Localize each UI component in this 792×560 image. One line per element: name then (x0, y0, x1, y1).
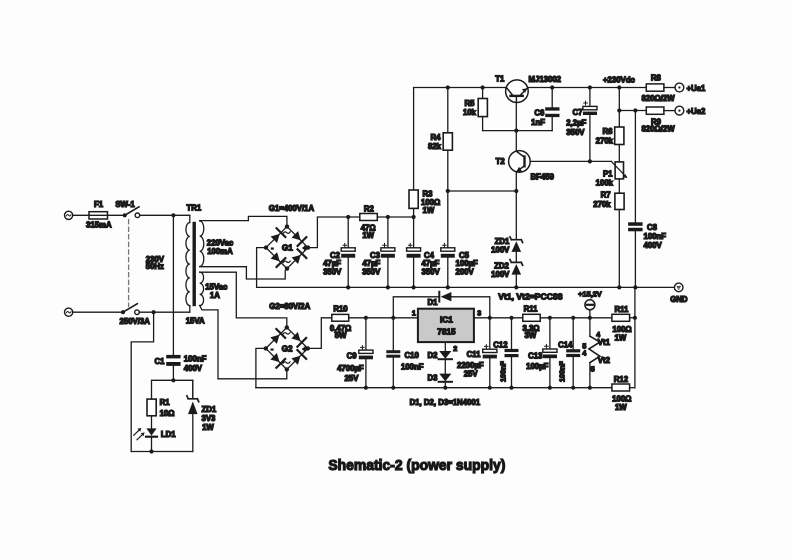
wire G1 minus to ground bus (257, 248, 266, 288)
wire G2 minus to lower ground bus (256, 348, 266, 387)
svg-text:4700µF: 4700µF (337, 364, 364, 373)
input terminal bottom (~) (65, 308, 73, 316)
switch SW-1 (top pole) (123, 207, 140, 218)
capacitor C2 (341, 217, 355, 287)
junction R5 top (481, 85, 485, 89)
capacitor C14 (566, 318, 580, 388)
svg-text:270k: 270k (596, 137, 614, 146)
svg-text:G1=400V/1A: G1=400V/1A (269, 204, 315, 213)
junction C8 top (633, 108, 637, 112)
svg-text:C11: C11 (467, 350, 482, 359)
svg-text:-: - (271, 246, 274, 253)
svg-text:100mA: 100mA (207, 247, 233, 256)
wire IC1 pin2 (444, 342, 446, 351)
svg-text:TR1: TR1 (187, 204, 202, 213)
svg-text:Shematic-2 (power supply): Shematic-2 (power supply) (328, 457, 505, 474)
svg-text:400V: 400V (644, 241, 663, 250)
svg-text:R10: R10 (333, 305, 348, 314)
wire SW bottom to primary bottom (139, 311, 190, 313)
svg-text:350V: 350V (566, 128, 585, 137)
output terminal +Ua1 (675, 83, 684, 92)
svg-text:350V: 350V (422, 267, 441, 276)
wire R9 to Ua2 (664, 110, 675, 112)
wire T1 base down to drive node (515, 102, 517, 130)
wire R12 right to ground drop (630, 387, 635, 389)
svg-text:C13: C13 (528, 351, 543, 360)
wire G2 plus up to R10 (308, 318, 332, 349)
svg-text:R11: R11 (524, 305, 539, 314)
svg-text:2,2µF: 2,2µF (566, 118, 586, 127)
wire SW-1 to node A (primary top) (140, 214, 190, 216)
svg-text:+Ua1: +Ua1 (687, 84, 707, 93)
output terminal +Ua2 (675, 106, 684, 115)
capacitor C12 (505, 318, 519, 388)
capacitor C4 (407, 217, 421, 287)
transistor T1 (506, 80, 529, 103)
resistor R8 (646, 84, 664, 91)
input terminal top (~) (65, 211, 73, 219)
dashed link between switch poles (128, 220, 130, 307)
svg-text:3W: 3W (525, 331, 537, 340)
wire R4 down to reference node (447, 150, 449, 191)
capacitor C11 (483, 318, 497, 388)
wire R1 to LD1 (151, 416, 153, 429)
svg-text:3V3: 3V3 (202, 414, 217, 423)
wire LD1 to bottom (151, 438, 153, 452)
zener ZD1 100V (510, 191, 523, 262)
junction node B (152, 310, 156, 314)
svg-text:C6: C6 (534, 109, 545, 118)
diode G2 bottom-right (291, 356, 300, 365)
svg-text:315mA: 315mA (86, 221, 112, 230)
svg-text:-: - (271, 346, 274, 353)
svg-text:1W: 1W (615, 334, 627, 343)
TR1 primary lead bottom (189, 306, 191, 313)
resistor R11 (3.3ohm) (523, 314, 540, 321)
svg-text:270k: 270k (593, 200, 611, 209)
svg-text:R11: R11 (614, 305, 629, 314)
svg-text:GND: GND (670, 295, 688, 304)
diode D1 (393, 292, 490, 318)
diode G1 top-left (271, 234, 280, 243)
junction drive node (514, 129, 518, 133)
svg-text:2: 2 (453, 344, 457, 353)
svg-text:820Ω/2W: 820Ω/2W (641, 94, 675, 103)
wire R9 feed (619, 110, 646, 112)
svg-text:R7: R7 (601, 190, 611, 199)
svg-text:C14: C14 (558, 341, 573, 350)
wire top rail right part (+230Vdc) (528, 87, 646, 89)
svg-text:G1: G1 (282, 244, 293, 253)
svg-text:C10: C10 (405, 351, 420, 360)
junction R9 branch (617, 108, 621, 112)
svg-text:1W: 1W (423, 206, 435, 215)
capacitor C9 (359, 318, 373, 388)
junction R4 top (446, 85, 450, 89)
capacitor C7 (583, 88, 597, 162)
resistor R1 (147, 399, 156, 416)
wire G1 plus up to raw rail (308, 217, 360, 248)
diode G2 top-right (291, 332, 300, 341)
ground bus upper (257, 286, 675, 288)
svg-text:1: 1 (412, 308, 416, 317)
capacitor C13 (543, 318, 557, 388)
wire node A down to C1 (crosses bottom mains wire) (172, 215, 174, 355)
resistor R12 (612, 384, 630, 391)
resistor R3 (409, 190, 418, 208)
svg-text:D1: D1 (428, 298, 439, 307)
capacitor C1 (166, 355, 180, 366)
wire 220Vac bottom lead to G1 AC bottom (200, 267, 286, 279)
svg-text:5W: 5W (335, 331, 347, 340)
svg-text:1W: 1W (362, 231, 374, 240)
junction C12 top (509, 316, 513, 320)
svg-text:820Ω/2W: 820Ω/2W (641, 125, 675, 134)
junction R11 right (633, 316, 637, 320)
wire R3 to rail (413, 208, 415, 217)
junction C9 top (364, 316, 368, 320)
resistor R2 (360, 214, 378, 221)
svg-text:100nF: 100nF (499, 361, 508, 382)
svg-text:100Ω: 100Ω (612, 325, 631, 334)
wire terminal1 to F1 (73, 214, 89, 216)
svg-text:100nF: 100nF (184, 355, 207, 364)
svg-text:T2: T2 (496, 157, 506, 166)
junction C2 top (346, 215, 350, 219)
wire R4 branch from top rail (447, 88, 449, 133)
svg-text:LD1: LD1 (161, 430, 176, 439)
resistor R11 (100ohm heater) (612, 314, 630, 321)
junction C7 bottom on base line (588, 159, 592, 163)
svg-text:D3: D3 (428, 373, 439, 382)
svg-text:1W: 1W (202, 423, 214, 432)
junction C7 top (588, 85, 592, 89)
svg-text:3: 3 (477, 309, 481, 318)
svg-text:MJ13002: MJ13002 (529, 75, 562, 84)
svg-text:+Ua2: +Ua2 (687, 107, 707, 116)
svg-text:82k: 82k (428, 142, 442, 151)
wire R7 to ground bus (618, 210, 620, 288)
wire C1 to indicator top node (172, 366, 174, 380)
transistor T2 (509, 131, 531, 191)
fuse F1 (89, 212, 108, 219)
TR1 primary lead top (189, 215, 191, 222)
svg-text:Vt2: Vt2 (598, 356, 611, 365)
svg-text:C12: C12 (493, 340, 508, 349)
junction D1/C10 input node (391, 316, 395, 320)
svg-text:100k: 100k (596, 179, 614, 188)
svg-text:Vt1, Vt2=PCC88: Vt1, Vt2=PCC88 (498, 293, 563, 302)
wire ground drop (C8 line to R12) (634, 287, 636, 387)
diode G1 top-right (292, 231, 301, 240)
svg-text:5: 5 (591, 367, 595, 374)
wire 15Vac bottom lead to G2 AC bottom (200, 305, 287, 378)
svg-text:350V: 350V (323, 267, 342, 276)
resistor R4 (443, 133, 452, 150)
junction C1 bottom (171, 378, 175, 382)
svg-text:10k: 10k (463, 108, 477, 117)
terminal +15,2V (585, 300, 595, 318)
potentiometer P1 (611, 145, 627, 194)
capacitor C5 (441, 191, 455, 287)
wire R11 to heater rail (540, 317, 612, 319)
svg-text:200V: 200V (456, 267, 475, 276)
svg-text:R6: R6 (603, 127, 614, 136)
svg-text:R12: R12 (614, 375, 629, 384)
svg-text:R4: R4 (431, 133, 442, 142)
wire R11 right to ground drop (630, 317, 635, 319)
svg-text:1A: 1A (210, 291, 220, 300)
diode D2 (439, 351, 452, 374)
svg-text:5: 5 (582, 343, 586, 350)
junction C13 top (548, 316, 552, 320)
svg-text:C8: C8 (647, 223, 658, 232)
svg-text:+15,2V: +15,2V (578, 290, 602, 299)
junction C6 top (550, 85, 554, 89)
svg-text:G2=80V/2A: G2=80V/2A (269, 302, 310, 311)
junction dots lower bus (364, 386, 592, 390)
junction D1/C11 output node (488, 316, 492, 320)
wire indicator top rail (152, 380, 193, 399)
svg-text:100µF: 100µF (526, 362, 549, 371)
svg-text:C9: C9 (347, 351, 358, 360)
svg-text:D1, D2, D3=1N4001: D1, D2, D3=1N4001 (410, 398, 481, 407)
capacitor C8 (628, 111, 643, 288)
diode D3 (439, 374, 452, 388)
wire node B down-left to indicator return (131, 312, 153, 451)
svg-text:25V: 25V (345, 374, 360, 383)
svg-text:+: + (303, 246, 307, 253)
wire raw rail right of R2 (377, 216, 413, 218)
junction C3 top (386, 215, 390, 219)
TR1 core (193, 222, 196, 306)
svg-text:1W: 1W (615, 403, 627, 412)
svg-text:ZD1: ZD1 (202, 405, 217, 414)
svg-text:C7: C7 (573, 108, 583, 117)
svg-text:+: + (303, 346, 307, 353)
svg-text:25V: 25V (464, 369, 479, 378)
terminal GND (674, 283, 683, 292)
diode G1 bottom-right (292, 255, 301, 264)
junction reference node (446, 189, 450, 193)
wire 15Vac top lead to G2 AC top (200, 272, 287, 325)
svg-text:D2: D2 (428, 351, 439, 360)
wire drive node rail R5-C6 (483, 130, 553, 132)
LED LD1 (134, 428, 157, 440)
svg-text:50Hz: 50Hz (146, 262, 164, 271)
svg-text:G2: G2 (282, 345, 293, 354)
svg-text:400V: 400V (184, 364, 203, 373)
junction LD1 bottom (149, 449, 153, 453)
svg-text:ZD1: ZD1 (495, 237, 510, 246)
junction R3/C4 node (412, 215, 416, 219)
svg-text:IC1: IC1 (440, 316, 453, 325)
svg-text:100nF: 100nF (558, 361, 567, 382)
junction heater top / +15V node (588, 316, 592, 320)
svg-text:15VA: 15VA (186, 316, 205, 325)
diode G2 top-left (270, 335, 279, 344)
lower ground bus (256, 387, 612, 389)
resistor R10 (332, 314, 349, 321)
switch SW-1 (bottom pole) 250V/3A (121, 304, 139, 315)
svg-text:4: 4 (582, 351, 586, 358)
diode G1 bottom-left (271, 252, 280, 261)
TR1 secondary 15Vac winding (200, 272, 204, 306)
junction dots ground bus (346, 285, 637, 289)
wire F1 to SW-1 (108, 214, 123, 216)
wire indicator bottom rail (131, 451, 193, 453)
svg-text:+230Vdc: +230Vdc (603, 76, 636, 85)
heater Vt1/Vt2 filaments (589, 318, 600, 388)
capacitor C10 (386, 318, 400, 388)
svg-text:100V: 100V (491, 270, 510, 279)
svg-text:SW-1: SW-1 (115, 200, 135, 209)
wire R3 branch from top rail (413, 88, 415, 191)
resistor R5 (478, 88, 487, 131)
svg-text:100V: 100V (491, 246, 510, 255)
svg-text:F1: F1 (94, 200, 104, 209)
svg-text:100nF: 100nF (401, 362, 424, 371)
resistor R6 (615, 127, 624, 145)
svg-text:T1: T1 (495, 75, 505, 84)
junction +230Vdc node (617, 85, 621, 89)
resistor R7 (615, 193, 624, 209)
capacitor C3 (381, 217, 395, 287)
wire +230 node down (618, 88, 620, 128)
wire T2 base line (530, 160, 611, 162)
svg-text:C1: C1 (155, 357, 166, 366)
wire reference node to T2 emitter (448, 190, 517, 192)
wire terminal2 to SW bottom (73, 311, 121, 313)
svg-text:BF459: BF459 (531, 173, 555, 182)
wire 220Vac top lead to G1 AC top (200, 216, 287, 224)
svg-text:R2: R2 (364, 204, 375, 213)
wire top rail left part (414, 87, 506, 89)
svg-text:15Vac: 15Vac (205, 283, 228, 292)
TR1 secondary 220Vac winding (200, 221, 204, 267)
svg-text:1nF: 1nF (531, 118, 545, 127)
zener ZD2 100V (510, 260, 523, 288)
svg-text:7815: 7815 (437, 328, 456, 337)
wire IC1 pin3 output rail (474, 317, 523, 319)
diode G2 bottom-left (270, 353, 279, 362)
capacitor C6 (545, 88, 559, 131)
wire R10 to IC1 input (349, 317, 418, 319)
regulator IC1 7815 (418, 309, 474, 342)
TR1 primary winding (186, 223, 190, 306)
svg-text:R5: R5 (465, 99, 476, 108)
junction C14 top (571, 316, 575, 320)
svg-text:R8: R8 (651, 73, 662, 82)
svg-text:R1: R1 (160, 398, 171, 407)
svg-text:Vt1: Vt1 (598, 338, 611, 347)
junction node A (171, 213, 175, 217)
zener ZD1 3V3 (187, 380, 199, 451)
svg-text:350V: 350V (362, 267, 381, 276)
svg-text:P1: P1 (603, 169, 613, 178)
svg-text:250V/3A: 250V/3A (120, 317, 151, 326)
wire R8 to Ua1 (664, 87, 675, 89)
junction T2 emitter bottom (514, 189, 518, 193)
svg-text:10Ω: 10Ω (160, 409, 175, 418)
svg-text:220Vac: 220Vac (207, 238, 234, 247)
resistor R9 (646, 107, 664, 114)
